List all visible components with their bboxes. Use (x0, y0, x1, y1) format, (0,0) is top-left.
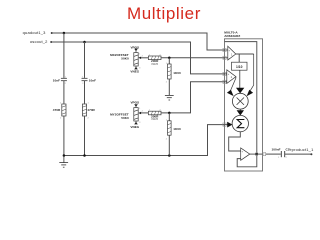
block 1/10 (232, 62, 248, 70)
op-amp X diff amp (225, 46, 236, 60)
svg-text:-: - (229, 56, 230, 60)
svg-text:C2b: C2b (286, 148, 292, 152)
wire summer to op-amp (229, 132, 241, 151)
pin 6 Z (223, 123, 226, 126)
wire Y to multiplier NW (231, 77, 236, 91)
wire (84, 81, 86, 104)
svg-text:2: 2 (166, 82, 168, 84)
junction (83, 41, 86, 44)
wire (168, 79, 170, 95)
op-amp Y diff amp (225, 70, 236, 84)
junction (63, 32, 66, 35)
wire to Y2 pin (161, 82, 225, 113)
capacitor C1b 10nF (82, 78, 88, 80)
svg-text:quadout1_3: quadout1_3 (23, 30, 47, 35)
ground X (165, 95, 174, 100)
svg-text:3: 3 (139, 68, 141, 70)
svg-text:50K0: 50K0 (121, 56, 129, 60)
svg-text:1/10: 1/10 (236, 65, 243, 69)
arrow multiplier to summer (239, 109, 241, 111)
junction (168, 57, 171, 60)
svg-text:VNEG: VNEG (130, 70, 139, 74)
pin 2 X2 (223, 56, 226, 59)
svg-text:0W25: 0W25 (151, 62, 158, 66)
terminal oscout_2 (50, 41, 52, 43)
svg-text:1K00: 1K00 (173, 71, 181, 75)
arrow Z into summer (225, 124, 228, 126)
summer circle (232, 115, 248, 131)
pin 3 Y1 (223, 72, 226, 75)
svg-text:2: 2 (166, 139, 168, 141)
svg-text:2: 2 (142, 55, 144, 57)
svg-text:10nF: 10nF (89, 79, 96, 83)
wiper arrow MY2 (138, 112, 141, 114)
ground main (59, 156, 68, 168)
svg-text:-: - (242, 157, 243, 161)
wire column A (63, 33, 65, 78)
wire column B (84, 42, 86, 78)
svg-text:product1_1: product1_1 (292, 147, 314, 152)
wire (168, 135, 170, 155)
svg-text:AD633ARZ: AD633ARZ (224, 34, 240, 38)
wire X to multiplier NE (250, 54, 253, 91)
wire X amp out (236, 53, 254, 55)
resistor 1K00 (Y) (168, 113, 170, 121)
resistor 200R (X) (148, 56, 161, 60)
svg-text:1: 1 (231, 75, 233, 79)
wire ground rail (64, 125, 225, 156)
wire output to cap (266, 153, 281, 155)
svg-text:2: 2 (60, 118, 62, 120)
wire (63, 116, 65, 156)
svg-text:470R: 470R (53, 108, 61, 112)
svg-text:100nF: 100nF (272, 148, 281, 152)
wire (84, 116, 86, 156)
pin 7 W (263, 153, 266, 156)
svg-text:Multiplier: Multiplier (127, 4, 201, 23)
wire feedback loop (237, 154, 257, 167)
resistor 1K00 (X) (168, 58, 170, 64)
svg-text:-: - (228, 80, 229, 84)
IC U1 boundary box (225, 39, 263, 171)
pin 4 Y2 (223, 80, 226, 83)
svg-text:2: 2 (286, 157, 288, 159)
svg-text:10nF: 10nF (53, 79, 60, 83)
terminal quadout1_3 (51, 32, 53, 34)
wire cap to product terminal (285, 153, 311, 155)
svg-text:+: + (229, 49, 231, 52)
svg-text:VPOS: VPOS (130, 101, 139, 105)
op-amp output buffer (241, 148, 250, 160)
arrow 1/10 to multiplier (239, 70, 241, 88)
resistor 470R (B) (82, 104, 86, 116)
junction x mark (255, 153, 257, 155)
junction (63, 154, 66, 157)
junction (83, 154, 86, 157)
svg-text:1: 1 (278, 157, 280, 159)
svg-text:1: 1 (88, 103, 90, 105)
resistor 200R (Y) (148, 111, 161, 115)
svg-text:2: 2 (65, 83, 67, 85)
svg-text:3: 3 (139, 122, 141, 124)
multiplier X circle (232, 93, 248, 109)
svg-text:VNEG: VNEG (130, 125, 139, 129)
svg-text:+: + (228, 73, 230, 76)
svg-text:1K00: 1K00 (173, 127, 181, 131)
wire input1 top (53, 33, 225, 50)
svg-text:1: 1 (231, 52, 233, 56)
wire op-amp out (250, 153, 263, 155)
pin 1 X1 (223, 48, 226, 51)
junction (168, 154, 171, 157)
svg-text:2: 2 (82, 83, 84, 85)
wire input2 (52, 42, 225, 74)
svg-text:+: + (242, 151, 244, 154)
capacitor C2b 100nF (281, 151, 284, 157)
svg-text:0W25: 0W25 (151, 117, 158, 121)
wire (63, 81, 65, 104)
wire internal top net (225, 42, 257, 155)
wiper arrow MX2 (138, 57, 141, 59)
junction (168, 112, 171, 115)
wire to X2 pin (161, 57, 225, 59)
svg-text:50K0: 50K0 (121, 116, 129, 120)
terminal product1_1 (310, 153, 312, 155)
svg-text:2: 2 (142, 111, 144, 113)
resistor 470R (A) (62, 104, 66, 116)
svg-text:2: 2 (88, 118, 90, 120)
svg-text:470R: 470R (87, 108, 95, 112)
wire branch to 1/10 (238, 54, 240, 62)
svg-text:oscout_2: oscout_2 (30, 39, 48, 44)
capacitor C1a 10nF (61, 78, 67, 80)
